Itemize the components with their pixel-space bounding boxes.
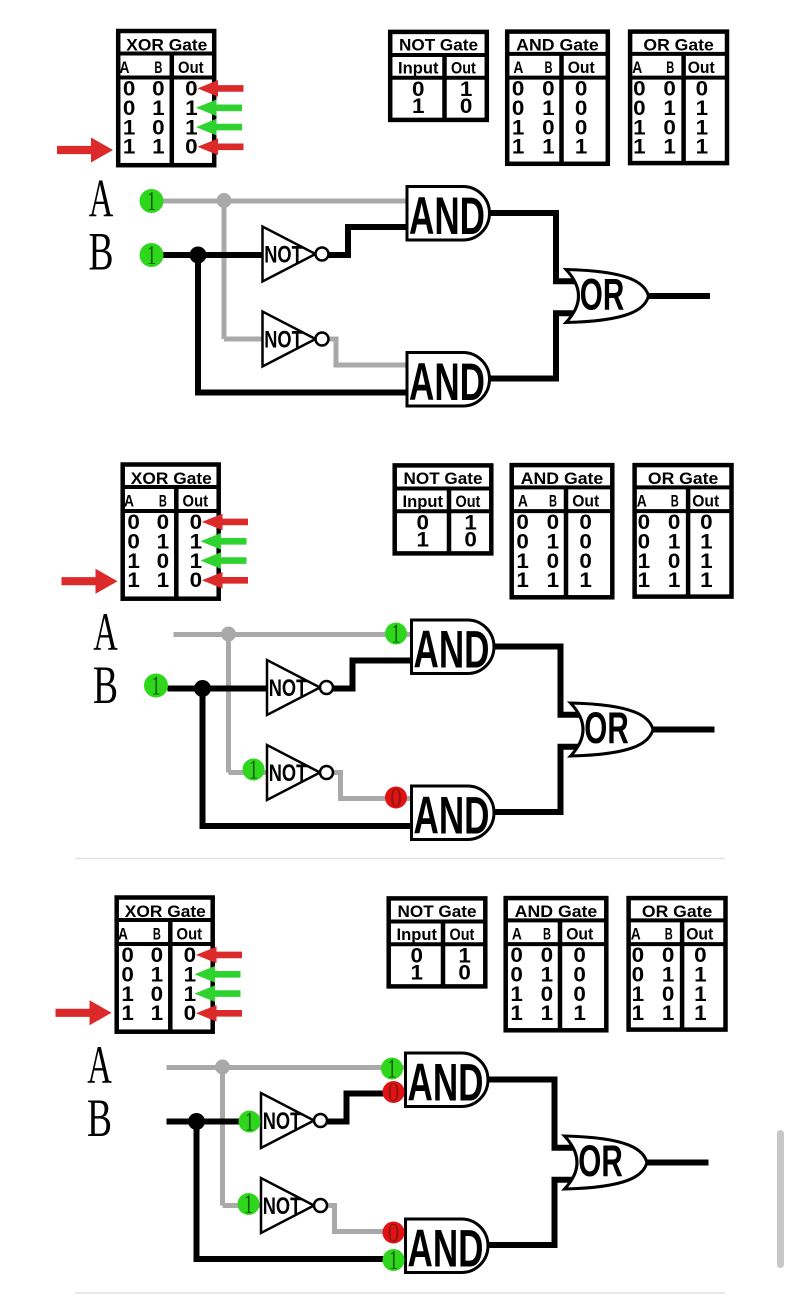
svg-text:A: A — [513, 58, 523, 77]
svg-text:0: 0 — [390, 782, 402, 812]
svg-text:1: 1 — [542, 135, 555, 159]
svg-text:A: A — [120, 58, 130, 77]
wire A branch vertical — [220, 1068, 225, 1206]
wire B branch vertical — [200, 689, 206, 827]
input A value 1 — [140, 186, 164, 216]
svg-text:B: B — [665, 925, 673, 944]
svg-text:1: 1 — [411, 960, 424, 984]
svg-text:1: 1 — [633, 135, 646, 159]
svg-text:1: 1 — [152, 135, 165, 159]
svg-text:AND Gate: AND Gate — [515, 902, 598, 921]
svg-text:1: 1 — [696, 135, 709, 159]
svg-text:B: B — [543, 925, 551, 944]
wire NOT2 out to AND2 in — [328, 339, 407, 365]
red arrow XOR row 1,1->0 — [202, 572, 248, 589]
svg-text:B: B — [154, 58, 162, 77]
svg-text:XOR Gate: XOR Gate — [125, 902, 206, 921]
svg-text:AND: AND — [409, 353, 485, 412]
panel separator 1 — [75, 858, 725, 860]
wire A branch vertical — [226, 635, 231, 773]
svg-text:1: 1 — [638, 568, 651, 592]
svg-text:1: 1 — [547, 568, 560, 592]
NOT gate U2 (input A) — [261, 1178, 327, 1233]
svg-text:AND Gate: AND Gate — [516, 36, 599, 55]
wire OR output — [645, 293, 710, 299]
red arrow current row 1,1 — [56, 1000, 112, 1025]
svg-text:Out: Out — [178, 58, 204, 77]
wire NOT2 out to AND2 in — [333, 773, 412, 799]
svg-text:OR: OR — [584, 704, 629, 753]
NOT gate U1 (input B) — [261, 1093, 327, 1148]
svg-text:1: 1 — [516, 568, 529, 592]
svg-text:B: B — [545, 58, 553, 77]
svg-text:A: A — [93, 601, 118, 662]
svg-text:NOT: NOT — [263, 1193, 302, 1220]
wire NOT1 out to AND1 in — [327, 1094, 406, 1122]
svg-text:Input: Input — [397, 925, 438, 944]
red arrow XOR row 1,1->0 — [198, 139, 244, 156]
wire OR output — [644, 1160, 709, 1166]
svg-text:B: B — [89, 221, 114, 282]
svg-text:0: 0 — [388, 1077, 400, 1107]
svg-text:AND: AND — [408, 1054, 484, 1113]
NOT Gate truth table — [395, 465, 492, 553]
svg-text:Out: Out — [688, 58, 715, 77]
svg-text:Input: Input — [403, 492, 444, 511]
node A at AND1 value 1 — [381, 1053, 403, 1083]
svg-text:1: 1 — [123, 135, 136, 159]
green arrow XOR row 1,0->1 — [196, 119, 242, 136]
svg-text:NOT Gate: NOT Gate — [398, 902, 477, 921]
svg-text:0: 0 — [184, 1001, 197, 1025]
svg-text:1: 1 — [244, 1189, 253, 1219]
node A branch junction — [221, 627, 236, 642]
svg-text:OR Gate: OR Gate — [643, 36, 713, 55]
NOT gate U1 (input B) — [267, 660, 333, 715]
svg-text:1: 1 — [147, 240, 156, 270]
OR Gate truth table — [630, 32, 727, 164]
panel separator 2 — [75, 1292, 725, 1294]
panel 3: all nodes annotated — [56, 898, 726, 1279]
svg-text:1: 1 — [579, 568, 592, 592]
input B value 1 — [140, 240, 164, 270]
svg-text:1: 1 — [127, 568, 140, 592]
wire NOT1 out to AND1 in — [333, 661, 412, 689]
green arrow XOR row 0,1->1 — [196, 100, 242, 117]
green arrow XOR row 1,0->1 — [201, 552, 247, 569]
svg-text:OR: OR — [578, 1137, 623, 1186]
wire A input — [163, 199, 407, 204]
svg-text:A: A — [632, 58, 642, 77]
svg-text:1: 1 — [662, 1001, 675, 1025]
svg-text:NOT: NOT — [263, 1108, 302, 1135]
svg-text:B: B — [666, 58, 674, 77]
svg-text:1: 1 — [575, 135, 588, 159]
svg-text:1: 1 — [157, 568, 170, 592]
NOT Gate truth table — [389, 898, 486, 986]
svg-text:1: 1 — [668, 568, 681, 592]
svg-text:1: 1 — [417, 527, 430, 551]
svg-text:NOT: NOT — [269, 760, 308, 787]
svg-text:0: 0 — [458, 960, 471, 984]
wire AND1 out to OR in — [488, 1080, 581, 1148]
NOT Gate truth table — [390, 32, 487, 120]
svg-text:OR: OR — [580, 270, 625, 319]
wire NOT1 out to AND1 in — [328, 227, 407, 255]
svg-text:Input: Input — [398, 58, 439, 77]
svg-text:B: B — [153, 925, 161, 944]
svg-text:AND Gate: AND Gate — [521, 469, 604, 488]
svg-text:1: 1 — [512, 135, 525, 159]
AND gate U3 (top) — [406, 1053, 488, 1113]
svg-text:0: 0 — [464, 527, 477, 551]
node A at AND1 value 1 — [385, 618, 407, 648]
svg-text:A: A — [89, 168, 114, 229]
svg-text:Out: Out — [177, 925, 203, 944]
svg-text:B: B — [93, 654, 118, 715]
svg-text:NOT Gate: NOT Gate — [404, 469, 483, 488]
svg-text:Out: Out — [568, 58, 595, 77]
svg-text:B: B — [159, 492, 167, 511]
svg-text:Out: Out — [692, 492, 719, 511]
svg-text:1: 1 — [147, 186, 156, 216]
wire B branch vertical — [195, 255, 201, 393]
svg-text:B: B — [671, 492, 679, 511]
svg-text:XOR Gate: XOR Gate — [131, 469, 212, 488]
node B at AND2 value 1 — [383, 1245, 405, 1275]
green arrow XOR row 0,1->1 — [195, 966, 241, 983]
svg-text:1: 1 — [389, 1245, 398, 1275]
node B at NOT1 value 1 — [239, 1106, 261, 1136]
svg-text:Out: Out — [450, 925, 475, 944]
svg-text:1: 1 — [694, 1001, 707, 1025]
svg-text:A: A — [631, 925, 641, 944]
wire A input — [167, 1065, 406, 1070]
OR gate U5 — [571, 703, 654, 756]
wire AND2 out to OR in — [494, 747, 587, 812]
svg-text:OR Gate: OR Gate — [648, 469, 718, 488]
svg-text:0: 0 — [460, 94, 473, 118]
OR gate U5 — [565, 1136, 648, 1189]
svg-text:B: B — [549, 492, 557, 511]
wire AND1 out to OR in — [489, 213, 582, 281]
wire AND2 out to OR in — [488, 1180, 581, 1245]
node NOT2 input value 1 — [238, 1189, 260, 1219]
AND gate U4 (bottom) — [406, 1219, 489, 1279]
red arrow current row 1,1 — [57, 138, 113, 163]
OR gate U5 — [566, 270, 649, 323]
svg-text:1: 1 — [412, 94, 425, 118]
node NOT2 output value 0 — [385, 782, 407, 812]
red arrow XOR row 1,1->0 — [196, 1005, 242, 1022]
svg-text:0: 0 — [185, 135, 198, 159]
svg-text:A: A — [637, 492, 647, 511]
svg-text:B: B — [87, 1087, 112, 1148]
wire A branch to NOT2 — [223, 1203, 262, 1208]
svg-text:A: A — [518, 492, 528, 511]
node B branch junction — [194, 680, 211, 697]
input B value 1 — [144, 670, 168, 700]
AND gate U3 (top) — [412, 620, 494, 680]
wire B input — [163, 252, 263, 258]
panel 1: A=1 B=1 — [57, 31, 727, 412]
node NOT2 input value 1 — [243, 754, 265, 784]
node B branch junction — [188, 1113, 205, 1130]
OR Gate truth table — [635, 465, 732, 596]
svg-text:Out: Out — [451, 58, 476, 77]
node A branch junction — [217, 193, 232, 208]
wire A branch to NOT2 — [224, 337, 263, 342]
panel 2: B=1 — [62, 465, 732, 846]
svg-text:Out: Out — [686, 925, 713, 944]
wire AND2 out to OR in — [489, 313, 582, 378]
wire B branch to AND2 in — [200, 823, 412, 829]
red arrow XOR row 0,0->0 — [198, 80, 244, 97]
svg-text:OR Gate: OR Gate — [642, 902, 712, 921]
wire B input — [168, 686, 268, 692]
node NOT2 output value 0 — [383, 1217, 405, 1247]
svg-text:1: 1 — [245, 1106, 254, 1136]
wire B branch vertical — [194, 1122, 200, 1260]
svg-text:1: 1 — [573, 1001, 586, 1025]
svg-text:XOR Gate: XOR Gate — [126, 36, 207, 55]
svg-text:0: 0 — [190, 568, 203, 592]
AND gate U3 (top) — [407, 187, 489, 247]
green arrow XOR row 1,0->1 — [195, 985, 241, 1002]
svg-text:0: 0 — [388, 1217, 400, 1247]
svg-text:1: 1 — [663, 135, 676, 159]
svg-text:1: 1 — [151, 1001, 164, 1025]
node B branch junction — [190, 247, 207, 264]
scrollbar thumb — [777, 1130, 784, 1268]
svg-text:AND: AND — [414, 787, 490, 846]
svg-text:1: 1 — [151, 670, 160, 700]
XOR Gate truth table — [123, 465, 219, 599]
AND gate U4 (bottom) — [407, 353, 490, 413]
svg-text:A: A — [87, 1034, 112, 1095]
NOT gate U1 (input B) — [263, 227, 329, 282]
AND Gate truth table — [512, 465, 613, 597]
red arrow XOR row 0,0->0 — [196, 947, 242, 964]
svg-text:NOT: NOT — [264, 326, 303, 353]
svg-text:AND: AND — [409, 187, 485, 246]
svg-text:NOT: NOT — [264, 241, 303, 268]
svg-text:A: A — [124, 492, 134, 511]
wire B branch to AND2 in — [194, 1256, 406, 1262]
AND Gate truth table — [506, 898, 607, 1030]
node NOT1 output value 0 — [383, 1077, 405, 1107]
svg-text:AND: AND — [414, 621, 490, 680]
NOT gate U2 (input A) — [267, 745, 333, 800]
svg-text:1: 1 — [632, 1001, 645, 1025]
red arrow XOR row 0,0->0 — [202, 514, 248, 531]
OR Gate truth table — [629, 898, 726, 1030]
svg-text:NOT: NOT — [269, 675, 308, 702]
XOR Gate truth table — [117, 898, 213, 1032]
AND gate U4 (bottom) — [412, 786, 495, 846]
svg-text:A: A — [118, 925, 128, 944]
svg-text:Out: Out — [183, 492, 209, 511]
wire NOT2 out to AND2 in — [327, 1206, 406, 1232]
wire B branch to AND2 in — [195, 390, 407, 396]
svg-text:1: 1 — [121, 1001, 134, 1025]
svg-text:Out: Out — [456, 492, 481, 511]
svg-text:1: 1 — [391, 618, 400, 648]
svg-text:Out: Out — [572, 492, 599, 511]
XOR Gate truth table — [118, 31, 214, 165]
red arrow current row 1,1 — [62, 569, 118, 594]
svg-text:AND: AND — [408, 1220, 484, 1279]
svg-text:1: 1 — [510, 1001, 523, 1025]
green arrow XOR row 0,1->1 — [201, 533, 247, 550]
wire A input — [174, 632, 412, 637]
svg-text:Out: Out — [566, 925, 593, 944]
svg-text:A: A — [512, 925, 522, 944]
wire AND1 out to OR in — [494, 647, 587, 715]
node A branch junction — [215, 1060, 230, 1075]
wire OR output — [650, 727, 715, 733]
wire B input — [167, 1119, 262, 1125]
NOT gate U2 (input A) — [263, 312, 329, 367]
AND Gate truth table — [507, 32, 608, 164]
wire A branch vertical — [222, 201, 227, 339]
svg-text:1: 1 — [249, 754, 258, 784]
svg-text:NOT Gate: NOT Gate — [399, 36, 478, 55]
svg-text:1: 1 — [541, 1001, 554, 1025]
svg-text:1: 1 — [700, 568, 713, 592]
wire A branch to NOT2 — [229, 770, 268, 775]
